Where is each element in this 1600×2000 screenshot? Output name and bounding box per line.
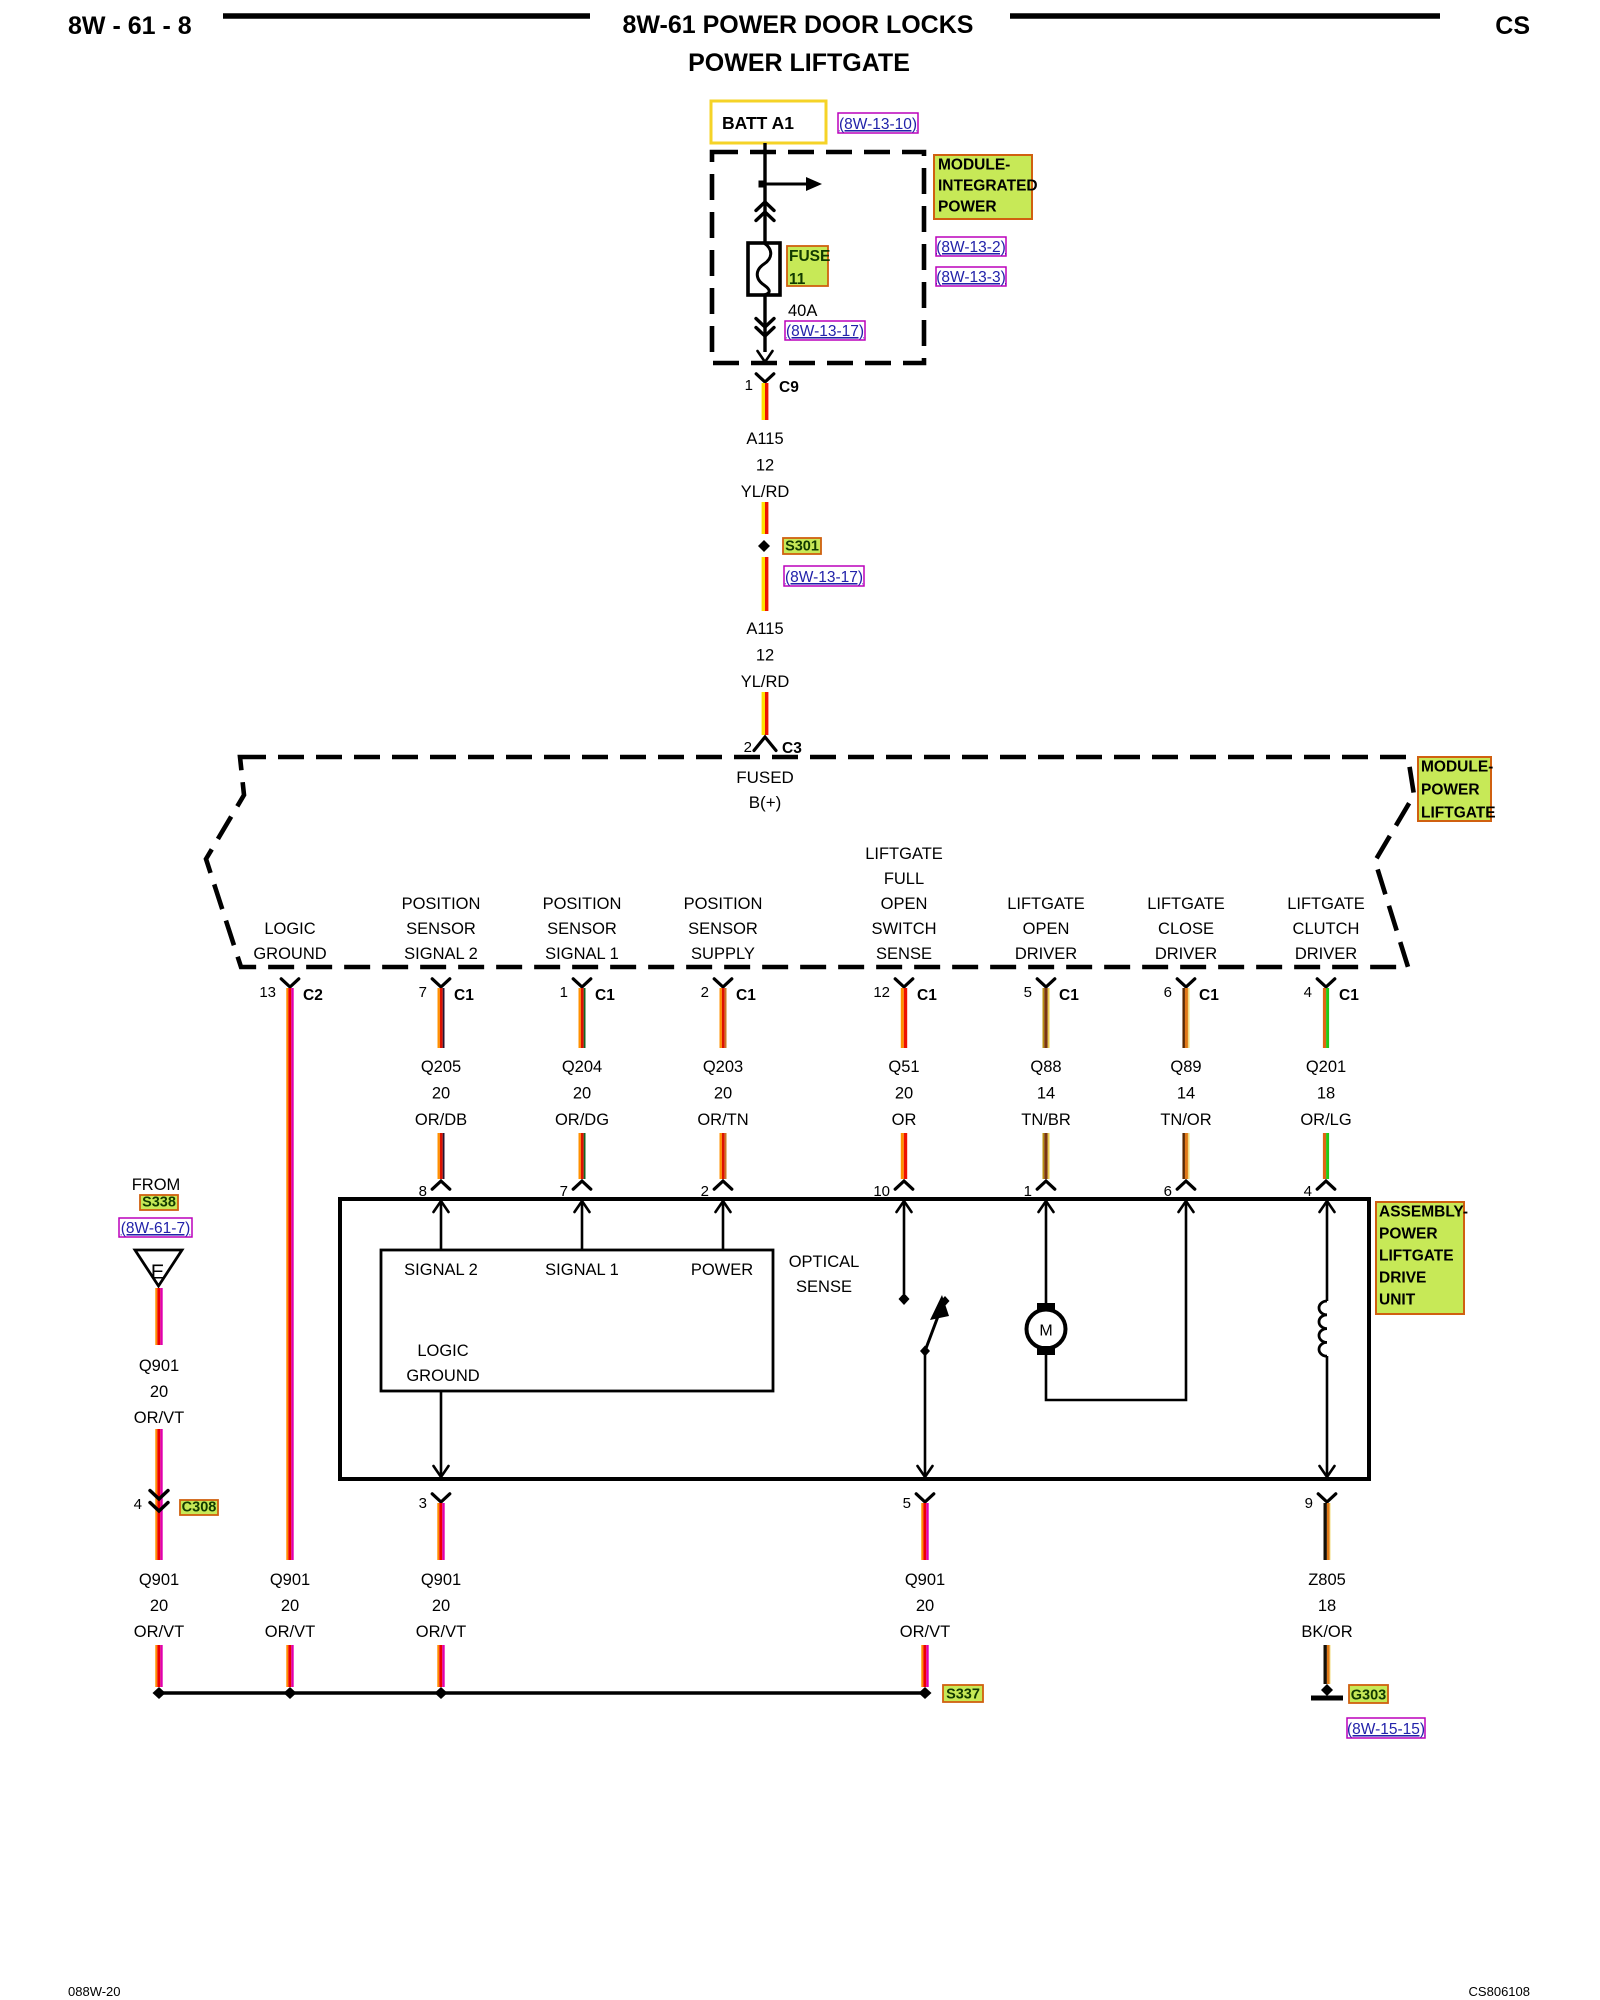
svg-text:(8W-13-3): (8W-13-3)	[936, 269, 1005, 286]
svg-text:LIFTGATE: LIFTGATE	[1287, 895, 1365, 913]
svg-text:2: 2	[744, 739, 752, 756]
battery BATT A1	[711, 101, 826, 143]
svg-text:OR: OR	[892, 1111, 917, 1129]
wire Q204 upper segment	[579, 988, 581, 1048]
svg-text:4: 4	[134, 1496, 142, 1513]
svg-text:C1: C1	[454, 987, 474, 1004]
svg-text:MODULE-: MODULE-	[1421, 759, 1493, 776]
wire A115 segment 3	[762, 557, 765, 611]
svg-text:M: M	[1039, 1323, 1052, 1340]
svg-text:A115: A115	[746, 430, 783, 448]
internal wire to clutch coil	[1326, 1201, 1329, 1301]
internal wire optical sense	[903, 1201, 906, 1294]
connector C1 pin 7	[432, 979, 450, 987]
wire Q901 to splice	[155, 1645, 157, 1687]
ground G303	[1321, 1684, 1333, 1696]
connector C1 pin 12	[895, 979, 913, 987]
svg-text:Q204: Q204	[562, 1058, 602, 1076]
svg-text:FUSED: FUSED	[736, 768, 794, 787]
svg-text:SENSE: SENSE	[876, 945, 932, 963]
wire Q89 upper segment	[1182, 988, 1185, 1048]
svg-text:FULL: FULL	[884, 870, 924, 888]
svg-text:(8W-15-15): (8W-15-15)	[1347, 1721, 1425, 1738]
wire Q51 lower segment	[901, 1133, 904, 1179]
svg-text:OR/DB: OR/DB	[415, 1111, 467, 1129]
wire Q205 upper segment	[438, 988, 440, 1048]
svg-text:GROUND: GROUND	[406, 1367, 479, 1385]
svg-text:LIFTGATE: LIFTGATE	[1379, 1248, 1454, 1265]
svg-text:5: 5	[903, 1495, 911, 1512]
svg-text:POWER: POWER	[691, 1261, 753, 1279]
svg-text:POWER: POWER	[1421, 782, 1480, 799]
svg-text:C1: C1	[595, 987, 615, 1004]
svg-text:LIFTGATE: LIFTGATE	[1421, 805, 1496, 822]
svg-text:POWER: POWER	[1379, 1226, 1438, 1243]
label FUSE 11	[787, 246, 828, 286]
svg-text:POWER: POWER	[938, 199, 997, 216]
bus junction	[919, 1687, 932, 1699]
svg-text:14: 14	[1037, 1085, 1055, 1103]
splice label S338	[140, 1195, 178, 1210]
svg-text:G303: G303	[1351, 1688, 1386, 1704]
drive unit connector pin 2	[714, 1181, 732, 1189]
svg-text:20: 20	[150, 1383, 168, 1401]
svg-text:12: 12	[873, 984, 890, 1001]
svg-text:20: 20	[432, 1085, 450, 1103]
svg-text:BATT A1: BATT A1	[722, 113, 794, 133]
svg-text:Q51: Q51	[888, 1058, 919, 1076]
svg-text:18: 18	[1318, 1597, 1336, 1615]
svg-text:S301: S301	[785, 539, 819, 555]
svg-text:DRIVER: DRIVER	[1155, 945, 1217, 963]
link 8W-13-2	[936, 237, 1006, 256]
drive unit connector pin 5	[916, 1494, 934, 1502]
svg-text:(8W-61-7): (8W-61-7)	[121, 1220, 190, 1237]
drive unit connector pin 6	[1177, 1181, 1195, 1189]
position sensor inner box	[381, 1250, 773, 1391]
svg-text:CLUTCH: CLUTCH	[1293, 920, 1360, 938]
svg-text:ASSEMBLY-: ASSEMBLY-	[1379, 1204, 1468, 1221]
svg-text:(8W-13-17): (8W-13-17)	[785, 569, 863, 586]
off-page connector E	[135, 1250, 182, 1286]
connector C1 pin 5	[1037, 979, 1055, 987]
svg-text:LOGIC: LOGIC	[417, 1342, 468, 1360]
svg-text:B(+): B(+)	[749, 793, 782, 812]
svg-text:20: 20	[432, 1597, 450, 1615]
connector C308 pin 4	[150, 1491, 168, 1500]
svg-text:LIFTGATE: LIFTGATE	[1147, 895, 1225, 913]
drive unit connector pin 8	[432, 1181, 450, 1189]
svg-text:Q201: Q201	[1306, 1058, 1346, 1076]
wire fuse lower lead	[763, 295, 766, 352]
svg-text:3: 3	[419, 1495, 427, 1512]
svg-text:OR/VT: OR/VT	[265, 1623, 315, 1641]
wire battery feed	[763, 143, 766, 243]
svg-text:A115: A115	[746, 620, 783, 638]
link 8W-13-17 splice	[784, 566, 864, 586]
svg-text:SIGNAL 2: SIGNAL 2	[404, 945, 478, 963]
svg-text:C3: C3	[782, 740, 802, 757]
svg-text:LIFTGATE: LIFTGATE	[865, 845, 943, 863]
svg-text:C1: C1	[917, 987, 937, 1004]
svg-text:1: 1	[560, 984, 568, 1001]
link 8W-13-3	[936, 267, 1006, 286]
svg-text:LOGIC: LOGIC	[264, 920, 315, 938]
wire Q88 lower segment	[1043, 1133, 1045, 1179]
svg-text:YL/RD: YL/RD	[741, 673, 790, 691]
splice bus wire	[159, 1691, 925, 1694]
svg-text:SENSOR: SENSOR	[547, 920, 617, 938]
svg-text:2: 2	[701, 984, 709, 1001]
svg-text:12: 12	[756, 457, 774, 475]
wire Q201 upper segment	[1323, 988, 1326, 1048]
svg-text:C9: C9	[779, 379, 799, 396]
svg-text:(8W-13-17): (8W-13-17)	[786, 323, 864, 340]
internal wire logic ground	[440, 1391, 443, 1476]
wire Q203 upper segment	[720, 988, 722, 1048]
junction node	[759, 181, 766, 188]
svg-text:SWITCH: SWITCH	[871, 920, 936, 938]
drive unit connector pin 4	[1317, 1181, 1335, 1189]
svg-text:OR/DG: OR/DG	[555, 1111, 609, 1129]
svg-text:OPEN: OPEN	[881, 895, 928, 913]
arrow module output	[758, 351, 773, 362]
assembly power liftgate drive unit box	[340, 1199, 1369, 1479]
svg-text:C308: C308	[182, 1500, 217, 1516]
wire A115 segment 2	[762, 502, 765, 534]
svg-text:DRIVER: DRIVER	[1295, 945, 1357, 963]
wire Q901 feed upper	[155, 1288, 157, 1345]
label MODULE-POWER LIFTGATE	[1418, 757, 1491, 821]
svg-text:18: 18	[1317, 1085, 1335, 1103]
svg-text:Q203: Q203	[703, 1058, 743, 1076]
wire Q89 lower segment	[1182, 1133, 1185, 1179]
drive unit connector pin 1	[1037, 1181, 1055, 1189]
wire Q203 lower segment	[720, 1133, 722, 1179]
header rule left	[223, 13, 590, 19]
svg-text:20: 20	[895, 1085, 913, 1103]
connector C9 pin 1	[756, 374, 774, 382]
svg-text:S337: S337	[946, 1687, 980, 1703]
svg-text:5: 5	[1024, 984, 1032, 1001]
svg-text:YL/RD: YL/RD	[741, 483, 790, 501]
svg-text:TN/BR: TN/BR	[1021, 1111, 1071, 1129]
internal wire to sensor	[440, 1201, 443, 1250]
link 8W-13-17	[785, 321, 865, 340]
svg-text:6: 6	[1164, 984, 1172, 1001]
svg-text:Q88: Q88	[1030, 1058, 1061, 1076]
svg-text:SENSE: SENSE	[796, 1278, 852, 1296]
svg-text:088W-20: 088W-20	[68, 1984, 121, 1999]
svg-text:Q901: Q901	[421, 1571, 461, 1589]
bus junction	[153, 1687, 166, 1699]
svg-text:CS806108: CS806108	[1469, 1984, 1530, 1999]
label MODULE-INTEGRATED POWER	[934, 155, 1032, 219]
internal wire motor return	[1046, 1201, 1186, 1400]
svg-text:4: 4	[1304, 984, 1312, 1001]
svg-text:SIGNAL 2: SIGNAL 2	[404, 1261, 478, 1279]
switch liftgate full open	[925, 1311, 940, 1351]
splice S301	[758, 540, 770, 552]
svg-text:7: 7	[419, 984, 427, 1001]
svg-text:C1: C1	[1339, 987, 1359, 1004]
svg-text:11: 11	[789, 271, 806, 288]
link 8W-61-7	[119, 1218, 192, 1237]
svg-text:Q901: Q901	[139, 1357, 179, 1375]
svg-text:SIGNAL 1: SIGNAL 1	[545, 1261, 619, 1279]
svg-text:POSITION: POSITION	[684, 895, 763, 913]
svg-text:20: 20	[281, 1597, 299, 1615]
wire Q901 pin5 upper	[921, 1503, 923, 1560]
svg-text:OPEN: OPEN	[1023, 920, 1070, 938]
svg-text:INTEGRATED: INTEGRATED	[938, 178, 1038, 195]
connector C1 pin 2	[714, 979, 732, 987]
connector C1 pin 6	[1177, 979, 1195, 987]
svg-text:20: 20	[150, 1597, 168, 1615]
link 8W-13-10	[838, 113, 918, 133]
svg-text:SIGNAL 1: SIGNAL 1	[545, 945, 619, 963]
svg-text:MODULE-: MODULE-	[938, 157, 1010, 174]
connector C2 pin 13	[281, 979, 299, 987]
svg-text:8W - 61 - 8: 8W - 61 - 8	[68, 12, 192, 40]
bus junction	[435, 1687, 448, 1699]
clutch coil	[1319, 1301, 1327, 1356]
connector C3 pin 2	[754, 737, 776, 751]
internal wire coil to pin 9	[1326, 1356, 1329, 1476]
svg-text:C2: C2	[303, 987, 323, 1004]
wire Q204 lower segment	[579, 1133, 581, 1179]
wire Q901 from C2	[286, 988, 288, 1560]
svg-text:Q901: Q901	[905, 1571, 945, 1589]
wire A115 segment 1	[762, 383, 765, 420]
motor M liftgate open/close	[1037, 1303, 1055, 1312]
svg-text:E: E	[151, 1262, 164, 1284]
svg-text:1: 1	[745, 377, 753, 394]
svg-text:9: 9	[1305, 1495, 1313, 1512]
wire Q901 pin3 lower	[437, 1645, 439, 1687]
svg-text:OR/VT: OR/VT	[134, 1623, 184, 1641]
svg-text:C1: C1	[1199, 987, 1219, 1004]
svg-text:SENSOR: SENSOR	[688, 920, 758, 938]
svg-text:TN/OR: TN/OR	[1160, 1111, 1211, 1129]
wire Q901 C2 lower	[286, 1645, 288, 1687]
svg-text:SUPPLY: SUPPLY	[691, 945, 755, 963]
svg-text:BK/OR: BK/OR	[1301, 1623, 1352, 1641]
bus junction	[284, 1687, 297, 1699]
svg-text:LIFTGATE: LIFTGATE	[1007, 895, 1085, 913]
wire Q901 feed mid	[155, 1429, 157, 1560]
module power liftgate dashed outline	[206, 757, 1414, 967]
svg-text:C1: C1	[1059, 987, 1079, 1004]
svg-text:OR/LG: OR/LG	[1300, 1111, 1351, 1129]
connector C1 pin 4	[1317, 979, 1335, 987]
arrow feed to other circuits	[765, 183, 806, 186]
svg-text:OR/VT: OR/VT	[900, 1623, 950, 1641]
svg-text:Q89: Q89	[1170, 1058, 1201, 1076]
wire Q205 lower segment	[438, 1133, 440, 1179]
svg-text:Q205: Q205	[421, 1058, 461, 1076]
svg-text:POWER LIFTGATE: POWER LIFTGATE	[688, 49, 910, 77]
svg-text:Q901: Q901	[270, 1571, 310, 1589]
svg-text:FUSE: FUSE	[789, 248, 830, 265]
svg-text:CS: CS	[1495, 12, 1530, 40]
wire Z805 lower	[1324, 1645, 1327, 1684]
wire Q901 pin5 lower	[921, 1645, 923, 1687]
module integrated power dashed outline	[712, 152, 924, 363]
header rule right	[1010, 13, 1440, 19]
splice label S337	[943, 1685, 983, 1702]
svg-text:UNIT: UNIT	[1379, 1292, 1416, 1309]
link 8W-15-15	[1347, 1718, 1425, 1738]
svg-text:SENSOR: SENSOR	[406, 920, 476, 938]
wire A115 segment 4	[762, 692, 765, 735]
drive unit connector pin 7	[573, 1181, 591, 1189]
svg-text:S338: S338	[142, 1195, 176, 1211]
svg-text:GROUND: GROUND	[253, 945, 326, 963]
wire Q51 upper segment	[901, 988, 904, 1048]
connector chevrons above fuse	[756, 202, 774, 211]
svg-text:Z805: Z805	[1308, 1571, 1346, 1589]
internal wire to sensor	[581, 1201, 584, 1250]
svg-text:(8W-13-10): (8W-13-10)	[839, 116, 917, 133]
svg-text:OR/VT: OR/VT	[416, 1623, 466, 1641]
svg-text:CLOSE: CLOSE	[1158, 920, 1214, 938]
svg-text:20: 20	[916, 1597, 934, 1615]
svg-text:OR/VT: OR/VT	[134, 1409, 184, 1427]
drive unit connector pin 9	[1318, 1494, 1336, 1502]
svg-text:(8W-13-2): (8W-13-2)	[936, 239, 1005, 256]
internal wire to sensor	[722, 1201, 725, 1250]
wire Z805 upper	[1324, 1503, 1327, 1560]
svg-text:POSITION: POSITION	[402, 895, 481, 913]
svg-text:OPTICAL: OPTICAL	[789, 1253, 860, 1271]
svg-text:20: 20	[714, 1085, 732, 1103]
svg-text:C1: C1	[736, 987, 756, 1004]
svg-text:12: 12	[756, 647, 774, 665]
drive unit connector pin 10	[895, 1181, 913, 1189]
svg-text:14: 14	[1177, 1085, 1195, 1103]
drive unit connector pin 3	[432, 1494, 450, 1502]
svg-text:20: 20	[573, 1085, 591, 1103]
connector C1 pin 1	[573, 979, 591, 987]
svg-text:OR/TN: OR/TN	[697, 1111, 748, 1129]
internal wire to motor	[1045, 1201, 1048, 1305]
svg-text:FROM: FROM	[132, 1176, 181, 1194]
internal wire switch to pin 5	[924, 1351, 927, 1476]
svg-text:DRIVE: DRIVE	[1379, 1270, 1426, 1287]
svg-text:13: 13	[259, 984, 276, 1001]
svg-text:DRIVER: DRIVER	[1015, 945, 1077, 963]
svg-text:Q901: Q901	[139, 1571, 179, 1589]
svg-text:8W-61 POWER DOOR LOCKS: 8W-61 POWER DOOR LOCKS	[623, 11, 974, 39]
label ASSEMBLY-POWER LIFTGATE DRIVE UNIT	[1376, 1202, 1464, 1314]
svg-text:POSITION: POSITION	[543, 895, 622, 913]
wire Q88 upper segment	[1043, 988, 1045, 1048]
connector chevrons below fuse	[756, 319, 774, 328]
fuse F11	[748, 243, 780, 295]
svg-text:40A: 40A	[788, 302, 817, 320]
wire Q201 lower segment	[1323, 1133, 1326, 1179]
wire Q901 pin3 upper	[437, 1503, 439, 1560]
